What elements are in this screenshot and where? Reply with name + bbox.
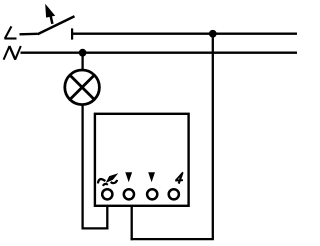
wire N xyxy=(21,52,298,54)
terminal 4 label xyxy=(175,172,183,183)
terminal 1 xyxy=(102,189,112,199)
switch S1 actuation arrow xyxy=(45,4,55,24)
device box U1 xyxy=(95,114,189,206)
terminal 1 symbol: dimmer output arrow over wave xyxy=(98,173,118,186)
node N label xyxy=(4,46,21,60)
node L label xyxy=(4,26,16,38)
terminal 3 symbol: triangle xyxy=(148,172,155,182)
terminal 3 xyxy=(147,189,157,199)
wire bottom horizontal to terminal 1 xyxy=(82,227,109,229)
node junction on N xyxy=(79,49,87,57)
switch S1 fixed contact xyxy=(71,28,73,39)
wire from L junction down right side xyxy=(212,34,214,239)
wire lamp down left side xyxy=(81,105,83,230)
lamp E1 xyxy=(65,70,100,105)
wire bottom horizontal to terminal 2 xyxy=(131,238,214,240)
switch S1 lever xyxy=(38,16,75,34)
wire L from label to switch xyxy=(20,33,38,36)
node junction on L xyxy=(209,30,217,38)
wire N junction to lamp xyxy=(81,53,83,70)
wire L from switch to right edge xyxy=(72,33,297,35)
terminal 4 xyxy=(169,189,179,199)
terminal 2 symbol: triangle xyxy=(125,172,132,182)
terminal 2 xyxy=(124,189,134,199)
wire up into terminal 2 xyxy=(131,205,133,241)
wire up into terminal 1 xyxy=(106,205,108,230)
